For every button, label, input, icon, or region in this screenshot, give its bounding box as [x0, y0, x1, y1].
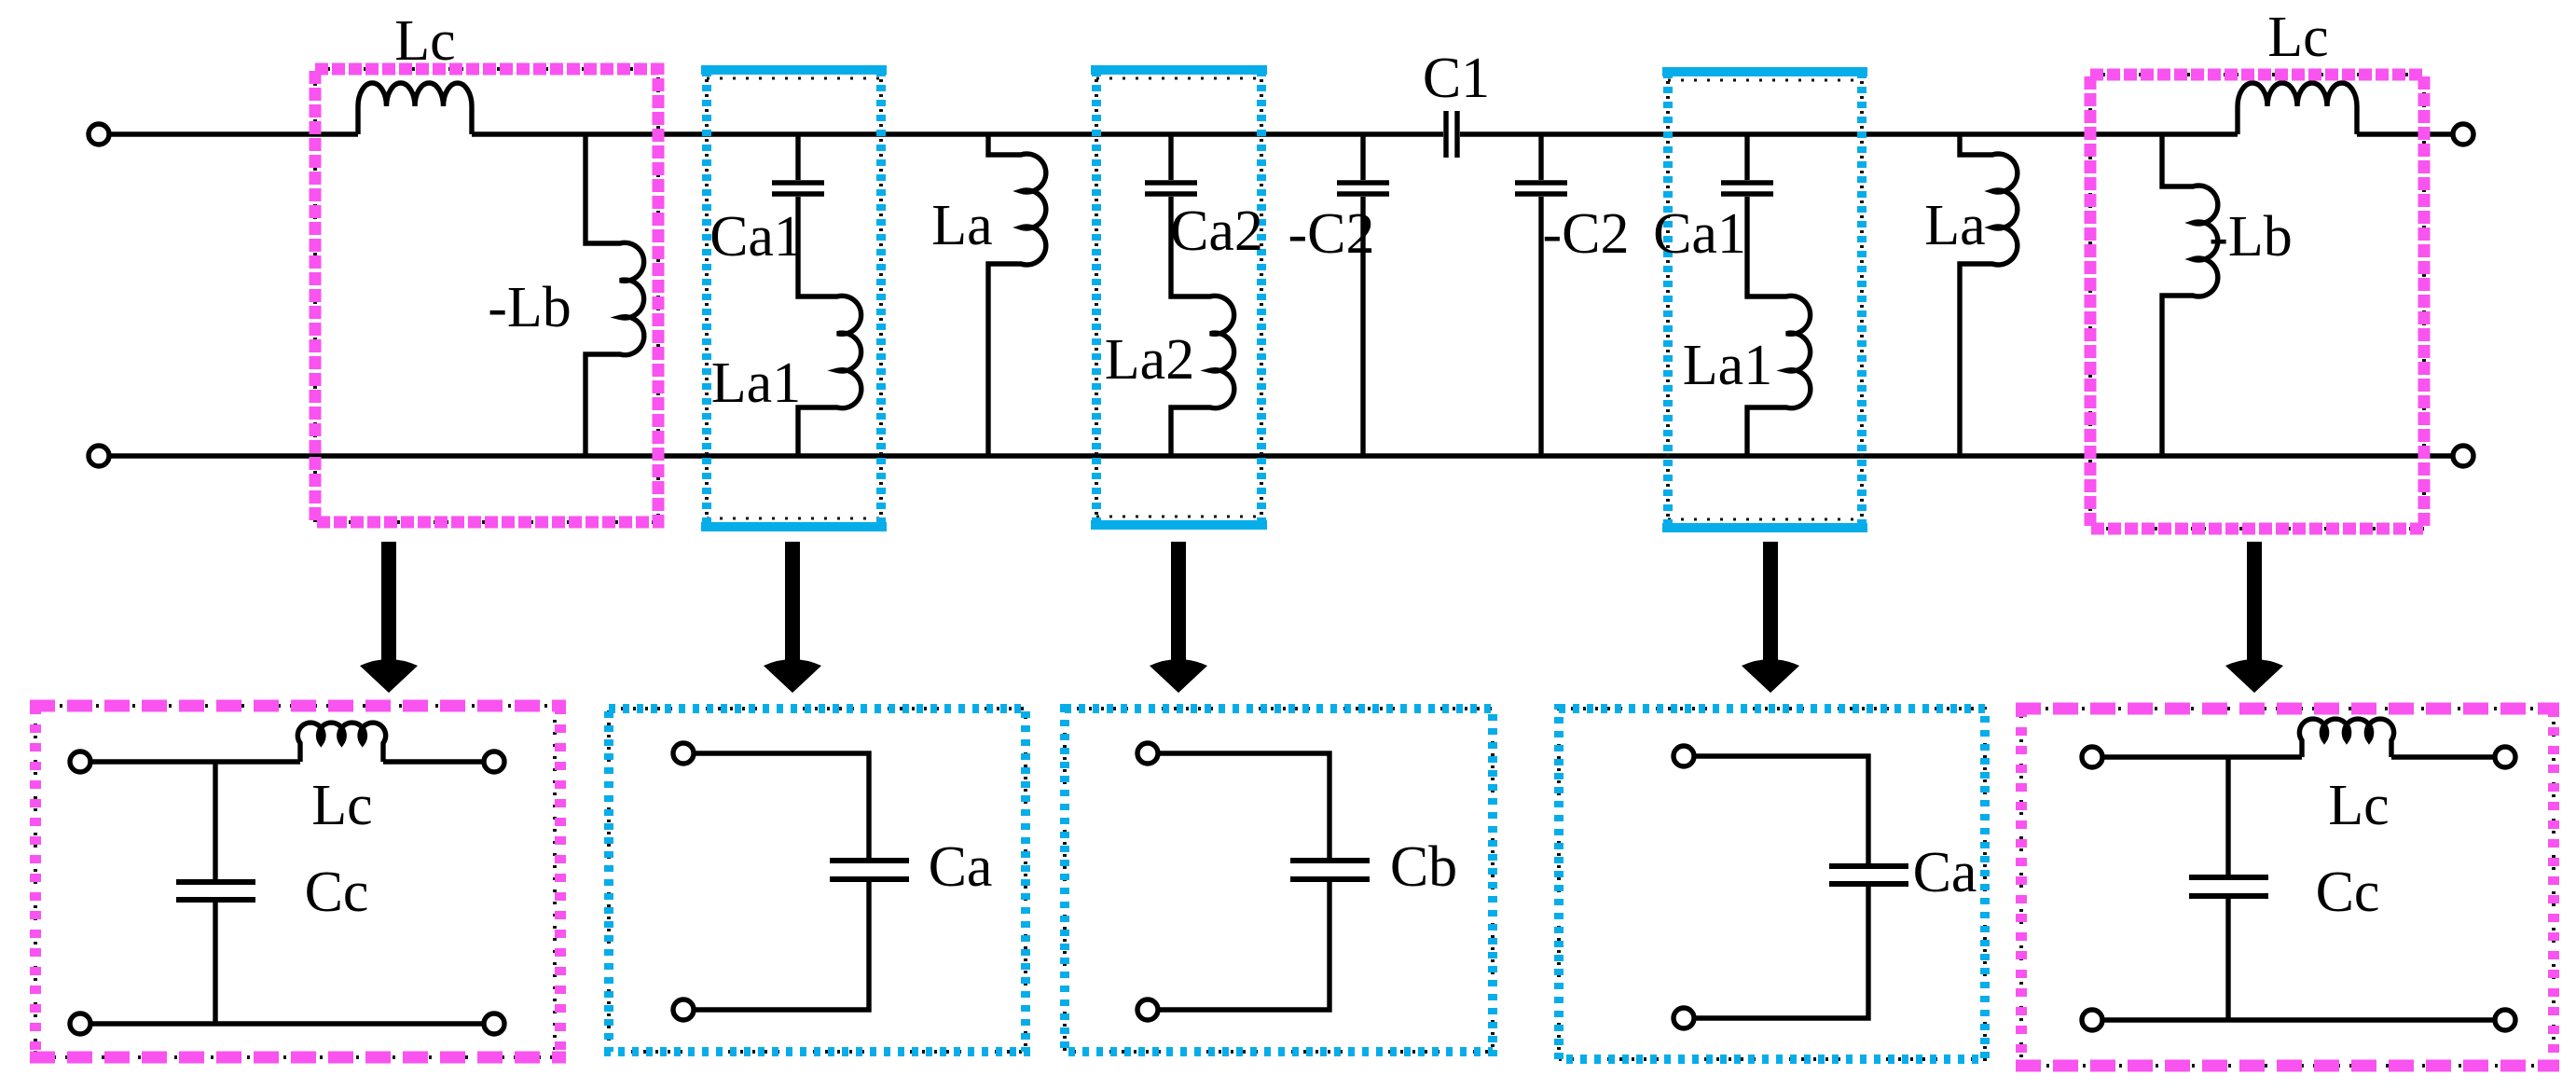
capacitor -C2 second [1515, 183, 1567, 194]
terminal output top [2453, 124, 2473, 145]
terminal B1 bottom-left [70, 1013, 90, 1034]
svg-text:Cc: Cc [2316, 861, 2380, 924]
box underlay dotted black bottom magenta B1 [35, 706, 555, 1057]
svg-text:La2: La2 [1105, 328, 1194, 392]
svg-text:La1: La1 [711, 352, 801, 415]
arrow 1 [360, 542, 418, 693]
svg-text:C1: C1 [1423, 47, 1490, 110]
inductor La left (shunt) [988, 134, 1046, 456]
box bottom blue B3 (Cb) [1065, 709, 1493, 1052]
capacitor Cc B1 [176, 882, 255, 900]
box bottom blue B4 (Ca) [1559, 709, 1985, 1059]
wire top rail segment 1 [110, 131, 358, 136]
terminal B4 bottom [1674, 1008, 1694, 1028]
capacitor Cb B3 [1290, 861, 1370, 879]
inductor -Lb right (shunt) [2162, 134, 2218, 456]
terminal B5 bottom-left [2082, 1010, 2102, 1030]
wire -C2 branch 2 bottom [1538, 197, 1543, 456]
box magenta left (Lc,-Lb) [315, 69, 658, 522]
wire B3 top [1159, 753, 1329, 858]
capacitor Ca B2 [830, 861, 909, 879]
terminal B2 top [673, 743, 694, 764]
terminal B1 top-right [484, 751, 504, 772]
svg-text:Cb: Cb [1390, 835, 1457, 899]
svg-text:Ca1: Ca1 [1653, 202, 1746, 266]
wire B5 top left [2103, 754, 2302, 759]
arrow 3 [1150, 542, 1207, 693]
inductor Lc B5 [2299, 719, 2393, 757]
inductor Lc B1 [297, 723, 385, 762]
wire B1 bottom [91, 1021, 483, 1026]
wire bottom rail [110, 453, 2452, 458]
svg-text:Ca: Ca [1913, 841, 1977, 904]
svg-text:Ca2: Ca2 [1170, 200, 1263, 263]
wire B2 bottom [695, 882, 869, 1010]
svg-text:-Lb: -Lb [2209, 205, 2293, 269]
svg-text:Ca1: Ca1 [709, 205, 803, 269]
wire B2 top [695, 753, 869, 858]
terminal input top [89, 124, 109, 145]
terminal B5 bottom-right [2495, 1010, 2515, 1030]
wire -C2 branch 1 bottom [1360, 197, 1365, 456]
terminal B5 top-left [2082, 747, 2102, 767]
inductor La1 left (below Ca1) [798, 197, 861, 456]
wire B1 top right [383, 759, 483, 764]
svg-text:Lc: Lc [2267, 6, 2328, 69]
terminal B5 top-right [2495, 747, 2515, 767]
wire Ca2 branch top [1168, 134, 1173, 180]
box blue 2 (Ca2,La2) [1091, 70, 1267, 525]
terminal B1 top-left [70, 751, 90, 772]
wire B5 top right [2391, 754, 2494, 759]
box underlay dotted black bottom blue B3 [1065, 709, 1493, 1052]
box underlay dotted black blue3 [1668, 72, 1862, 528]
inductor La2 (below Ca2) [1171, 197, 1234, 456]
capacitor -C2 first [1337, 183, 1389, 194]
box underlay dotted black bottom blue B4 [1559, 709, 1985, 1059]
box underlay dotted black blue2 [1096, 70, 1261, 525]
wire Ca1-right branch top [1744, 134, 1749, 180]
wire B1 shunt lower [213, 903, 217, 1024]
box underlay dotted black bottom blue B2 [609, 709, 1026, 1052]
inductor La right (shunt) [1960, 134, 2018, 456]
terminal output bottom [2453, 446, 2473, 466]
terminal B4 top [1674, 746, 1694, 766]
box underlay dotted black bottom magenta B5 [2021, 709, 2554, 1066]
terminal B1 bottom-right [484, 1013, 504, 1034]
svg-text:-C2: -C2 [1288, 202, 1375, 266]
inductor La1 right (below Ca1) [1747, 197, 1811, 456]
svg-text:Lc: Lc [394, 9, 455, 73]
wire top rail segment 4 [2357, 131, 2452, 136]
box underlay dotted black blue1 [707, 70, 881, 527]
terminal input bottom [89, 446, 109, 466]
capacitor C1 (series) [1446, 111, 1457, 158]
wire B4 top [1695, 756, 1868, 863]
capacitor Ca1 right [1721, 183, 1773, 194]
svg-text:-C2: -C2 [1543, 202, 1630, 266]
wire top rail segment 3 [1460, 131, 2238, 136]
svg-text:Ca: Ca [929, 835, 993, 899]
svg-text:Lc: Lc [311, 774, 372, 837]
inductor Lc right (series) [2238, 83, 2357, 134]
box bottom magenta B5 (Lc,Cc) [2016, 709, 2559, 1066]
box magenta right (Lc,-Lb) [2090, 75, 2424, 529]
svg-text:-Lb: -Lb [488, 276, 572, 339]
svg-text:La: La [1924, 194, 1985, 257]
wire B1 shunt upper [213, 762, 217, 879]
wire top rail segment 2 [472, 131, 1443, 136]
arrow 4 [1742, 542, 1799, 693]
wire -C2 branch 2 top [1538, 134, 1543, 180]
wire B5 shunt lower [2225, 899, 2230, 1020]
box underlay dotted black magenta1 [315, 69, 658, 522]
svg-text:Lc: Lc [2328, 774, 2389, 837]
terminal B2 bottom [673, 999, 694, 1020]
box bottom magenta B1 (Lc,Cc) [30, 706, 566, 1057]
wire -C2 branch 1 top [1360, 134, 1365, 180]
box bottom blue B2 (Ca) [609, 709, 1026, 1052]
arrow 2 [764, 542, 821, 693]
capacitor Ca1 left [772, 183, 824, 194]
terminal B3 top [1137, 743, 1158, 764]
box blue 3 (Ca1,La1 right) [1662, 72, 1867, 528]
terminal B3 bottom [1137, 999, 1158, 1020]
wire B4 bottom [1695, 887, 1868, 1018]
wire B3 bottom [1159, 882, 1329, 1010]
box blue 1 (Ca1,La1 left) [701, 70, 887, 527]
svg-text:Cc: Cc [305, 861, 369, 924]
wire B5 shunt upper [2225, 757, 2230, 875]
box underlay dotted black magenta2 [2090, 75, 2424, 529]
wire Ca1-left branch top [795, 134, 800, 180]
svg-text:La: La [931, 194, 992, 257]
capacitor Cc B5 [2189, 877, 2268, 896]
inductor Lc left (series) [358, 83, 472, 134]
svg-text:La1: La1 [1683, 334, 1772, 397]
arrow 5 [2225, 542, 2283, 693]
inductor -Lb left (shunt) [585, 134, 644, 456]
capacitor Ca2 [1145, 183, 1197, 194]
wire B5 bottom [2103, 1017, 2494, 1022]
wire B1 top left [91, 759, 300, 764]
capacitor Ca B4 [1829, 866, 1908, 884]
